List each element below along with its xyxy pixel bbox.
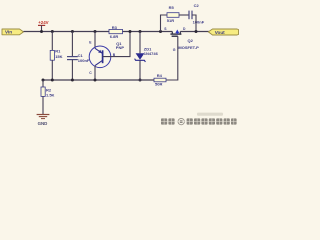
svg-text:100nF: 100nF (193, 20, 205, 25)
wire: rail down to zener (139, 32, 141, 54)
wire: R5 to C2 (179, 14, 189, 16)
wire: rail Vin to R3 (24, 31, 110, 33)
watermark (161, 113, 237, 125)
junction: R1 on rail (51, 30, 54, 33)
resistor R1 (50, 48, 62, 60)
junction: Q1 emitter on rail (94, 30, 97, 33)
svg-text:G: G (173, 48, 176, 52)
zener diode ZD1 1N4746 (135, 47, 159, 62)
junction: snubber left on rail (159, 30, 162, 33)
svg-text:+24V: +24V (38, 20, 48, 25)
junction: zener on gate line (139, 79, 142, 82)
junction: C1 on gate line (71, 79, 74, 82)
wire: rail down to R1 (51, 32, 53, 52)
transistor Q2 MOSFET-P (170, 30, 199, 51)
wire: C1 down to gate line (71, 60, 73, 80)
svg-text:Q2: Q2 (188, 38, 194, 43)
wire: gate line R2 to R4 (43, 79, 154, 81)
svg-text:MOSFET-P: MOSFET-P (178, 45, 199, 50)
wire: C2 right then down to rail (192, 15, 196, 32)
wire: zener down to gate line (139, 60, 141, 80)
junction: snubber right on rail (195, 30, 198, 33)
svg-text:R1: R1 (55, 48, 61, 53)
svg-text:6.8R: 6.8R (110, 34, 119, 39)
svg-text:1.5K: 1.5K (46, 92, 55, 97)
svg-text:PNP: PNP (116, 45, 125, 50)
wire: rail up to R5 (161, 15, 168, 32)
svg-text:R3: R3 (112, 25, 118, 30)
svg-text:51R: 51R (167, 18, 174, 23)
junction: Q1 collector on gate line (94, 79, 97, 82)
junction: R1 on gate line (51, 79, 54, 82)
wire: R1 down to gate line (51, 60, 53, 80)
junction: +24V on rail (40, 30, 43, 33)
wire: Q1 base right then up to rail (103, 32, 130, 57)
capacitor C2 (189, 3, 205, 25)
svg-text:C2: C2 (194, 3, 200, 8)
resistor R5 (167, 5, 179, 23)
junction: C1 on rail (71, 30, 74, 33)
resistor R4 (154, 73, 166, 87)
svg-text:100nF: 100nF (78, 58, 90, 63)
wire: rail MOSFET drain to Vout (180, 31, 209, 33)
wire: rail R3 to MOSFET source (123, 31, 173, 33)
port Vin (2, 29, 24, 35)
wire: R2 down to ground (42, 96, 44, 114)
svg-text:R4: R4 (157, 73, 163, 78)
wire: Q2 gate down to gate line corner (166, 36, 178, 80)
svg-text:15K: 15K (55, 54, 62, 59)
svg-text:1N4746: 1N4746 (144, 51, 159, 56)
svg-text:Vin: Vin (5, 30, 12, 35)
port Vout (208, 29, 238, 35)
power +24V (38, 20, 49, 31)
svg-text:R5: R5 (169, 5, 175, 10)
wire: rail down to Q1 emitter (94, 32, 96, 49)
junction: zener on rail (139, 30, 142, 33)
svg-text:50R: 50R (155, 82, 162, 87)
junction: R2 on gate line (42, 79, 45, 82)
junction: base riser on rail (129, 30, 132, 33)
svg-text:Vout: Vout (215, 30, 225, 35)
transistor Q1 PNP (89, 41, 124, 67)
wire: rail down to C1 (71, 32, 73, 57)
resistor R3 (in rail) (109, 25, 123, 39)
ground GND (37, 115, 50, 127)
capacitor C1 (67, 53, 90, 63)
wire: Q1 collector down to gate line (94, 66, 96, 80)
wire: gate line down to R2 (42, 80, 44, 87)
svg-text:GND: GND (38, 121, 48, 126)
resistor R2 (41, 87, 55, 97)
